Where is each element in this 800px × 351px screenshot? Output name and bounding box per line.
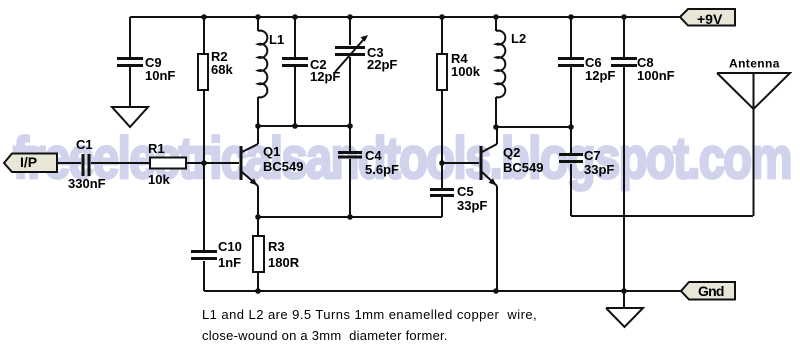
transistor Q2 emitter arrow	[489, 178, 497, 185]
svg-text:C5: C5	[457, 184, 474, 199]
inductor L2 coil	[496, 31, 505, 98]
svg-text:100k: 100k	[451, 64, 481, 79]
resistor R2 body	[198, 54, 208, 90]
svg-text:L2: L2	[511, 31, 526, 46]
svg-text:BC549: BC549	[503, 160, 543, 175]
resistor R4 body	[437, 54, 447, 90]
svg-text:L1 and L2 are 9.5 Turns 1mm en: L1 and L2 are 9.5 Turns 1mm enamelled co…	[202, 307, 537, 322]
capacitor C3 plates	[335, 46, 365, 49]
watermark	[13, 126, 791, 191]
svg-text:freeelectricalsandtools.blogsp: freeelectricalsandtools.blogspot.com	[13, 126, 791, 191]
resistor R3	[257, 217, 259, 291]
junction dots group	[201, 14, 627, 294]
node dot ground	[621, 288, 627, 294]
transistor Q1 base bar	[240, 146, 243, 180]
svg-text:12pF: 12pF	[585, 68, 615, 83]
svg-text:Q1: Q1	[263, 144, 280, 159]
inductor L1	[257, 17, 259, 126]
node dot C2 bottom	[292, 123, 298, 129]
ground	[112, 107, 148, 127]
svg-text:180R: 180R	[268, 255, 300, 270]
node dot C4 bottom	[347, 214, 353, 220]
svg-text:R1: R1	[148, 141, 165, 156]
capacitor C9	[118, 17, 143, 107]
node dot L2 top	[493, 14, 499, 20]
svg-text:68k: 68k	[211, 62, 233, 77]
wire emitter rail	[258, 216, 442, 218]
capacitor C8	[623, 17, 625, 291]
node dot Q2 collector	[493, 124, 499, 130]
wire rail C	[571, 215, 753, 217]
svg-text:33pF: 33pF	[457, 198, 487, 213]
capacitor C3	[335, 17, 364, 126]
capacitor C8 plates	[611, 57, 637, 60]
tag I/P	[4, 154, 57, 173]
svg-text:5.6pF: 5.6pF	[365, 162, 399, 177]
svg-text:L1: L1	[269, 32, 284, 47]
capacitor C9 plates	[117, 57, 143, 60]
svg-text:+9V: +9V	[697, 11, 723, 27]
wire bottom rail	[204, 290, 681, 292]
capacitor C7	[570, 127, 572, 216]
resistor R4	[441, 17, 443, 163]
transistor Q1	[242, 126, 258, 217]
wire rail B	[496, 126, 571, 128]
node dot L1 bottom	[255, 123, 261, 129]
capacitor C3 arrow head	[361, 35, 369, 42]
svg-text:C4: C4	[365, 148, 382, 163]
capacitor C4	[349, 126, 351, 217]
svg-text:C10: C10	[218, 239, 242, 254]
tag +9V	[680, 9, 735, 26]
capacitor C2 plates	[282, 57, 308, 60]
svg-text:100nF: 100nF	[637, 68, 675, 83]
antenna	[717, 73, 790, 216]
resistor R3 body	[253, 236, 264, 272]
svg-text:close-wound on a 3mm diameter: close-wound on a 3mm diameter former.	[202, 328, 448, 343]
svg-text:BC549: BC549	[263, 159, 303, 174]
svg-text:C1: C1	[76, 137, 93, 152]
tag Gnd	[681, 282, 735, 300]
wire Q2 base	[442, 162, 479, 164]
wire top rail	[130, 16, 680, 18]
svg-text:I/P: I/P	[20, 154, 37, 170]
wire signal rail	[56, 162, 239, 164]
capacitor C1 plates	[82, 154, 85, 176]
inductor L2	[495, 17, 497, 127]
svg-text:C7: C7	[584, 148, 601, 163]
transistor Q1 emitter arrow	[250, 178, 258, 185]
node dot R2 top	[201, 14, 207, 20]
svg-text:R3: R3	[268, 239, 285, 254]
svg-text:1nF: 1nF	[218, 255, 241, 270]
capacitor C5	[441, 163, 443, 217]
svg-text:33pF: 33pF	[584, 162, 614, 177]
transistor Q2 base bar	[480, 146, 483, 180]
node dot C6 bottom	[568, 124, 574, 130]
capacitor C6	[570, 17, 572, 127]
capacitor C7 plates	[559, 153, 583, 156]
capacitor C2	[294, 17, 296, 126]
node dot C6 top	[568, 14, 574, 20]
ground main	[606, 291, 643, 327]
resistor R2	[203, 17, 205, 163]
svg-text:330nF: 330nF	[68, 176, 106, 191]
node dot C8 top	[621, 14, 627, 20]
node dot Q2 base	[439, 160, 445, 166]
svg-text:Gnd: Gnd	[698, 283, 724, 299]
node dot L1 top	[255, 14, 261, 20]
capacitor plates and arrows group	[82, 35, 638, 260]
capacitor C5 plates	[430, 188, 454, 191]
capacitor C10	[203, 163, 205, 291]
node dot Q2 emitter	[493, 288, 499, 294]
svg-text:Q2: Q2	[503, 145, 520, 160]
wire rail A	[258, 125, 350, 127]
node dot C2 top	[292, 14, 298, 20]
node dot Q1 base	[201, 160, 207, 166]
inductor L1 coil	[258, 31, 267, 98]
svg-text:22pF: 22pF	[367, 57, 397, 72]
svg-text:10nF: 10nF	[145, 68, 175, 83]
svg-text:10k: 10k	[148, 172, 170, 187]
node dot C3 top	[347, 14, 353, 20]
node dot Q1 emitter	[255, 214, 261, 220]
node dot C3 bottom	[347, 123, 353, 129]
svg-text:Antenna: Antenna	[729, 57, 780, 71]
resistor R1 body	[150, 158, 186, 169]
node dot R4 top	[439, 14, 445, 20]
node dot R3 bottom	[255, 288, 261, 294]
capacitor C4 plates	[338, 151, 362, 154]
svg-text:12pF: 12pF	[310, 69, 340, 84]
capacitor C10 plates	[191, 250, 217, 253]
transistor Q2	[482, 127, 497, 291]
capacitor C6 plates	[558, 57, 584, 60]
